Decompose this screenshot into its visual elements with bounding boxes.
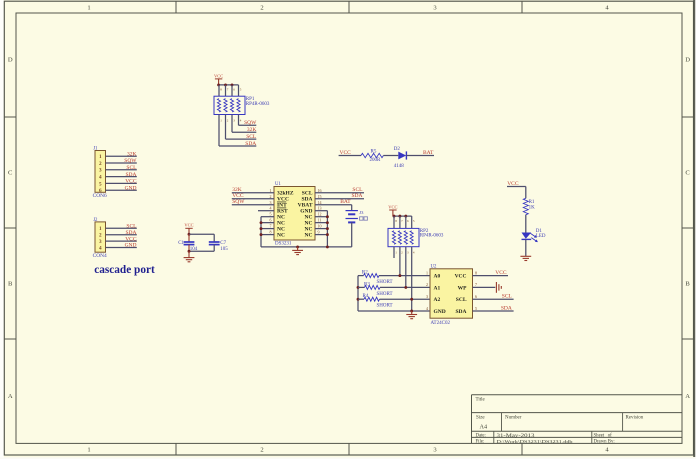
zone ticks top bbox=[175, 1, 177, 13]
wire U1 right NC vertical bbox=[326, 211, 328, 247]
svg-text:Title: Title bbox=[476, 398, 486, 403]
svg-text:SHORT: SHORT bbox=[377, 292, 393, 297]
wire RP1 to SCL bbox=[225, 115, 227, 140]
svg-text:R5: R5 bbox=[371, 150, 377, 155]
U1 pin4 stub bbox=[258, 210, 274, 212]
svg-text:VCC: VCC bbox=[455, 274, 467, 280]
junction dot A2 bbox=[410, 298, 413, 301]
wire VCC to R5 bbox=[339, 155, 361, 157]
svg-text:SDA: SDA bbox=[351, 193, 362, 199]
svg-text:1: 1 bbox=[270, 188, 272, 193]
LED D1 bbox=[522, 233, 532, 239]
wire U2 pin8 VCC bbox=[473, 275, 509, 277]
svg-text:3: 3 bbox=[99, 168, 102, 174]
svg-text:GND: GND bbox=[125, 185, 137, 191]
wire R4 to U2 pin3 bbox=[380, 298, 431, 300]
svg-text:8: 8 bbox=[270, 230, 272, 235]
svg-text:SDA: SDA bbox=[125, 172, 136, 178]
wire U1 pin13 GND bbox=[315, 210, 327, 212]
svg-text:RP4R-0603: RP4R-0603 bbox=[420, 234, 444, 239]
connector J2 body bbox=[95, 222, 106, 252]
svg-text:4: 4 bbox=[99, 175, 102, 181]
wire R1 to D1 bbox=[525, 215, 527, 233]
svg-text:Number: Number bbox=[505, 415, 522, 420]
svg-text:R4: R4 bbox=[363, 294, 369, 299]
svg-text:A4: A4 bbox=[480, 423, 488, 430]
svg-text:A2: A2 bbox=[434, 297, 441, 303]
svg-text:2: 2 bbox=[99, 233, 102, 239]
resistor pack RP2 body bbox=[393, 216, 395, 228]
svg-text:D: D bbox=[8, 57, 13, 64]
svg-text:NC: NC bbox=[305, 233, 313, 239]
wire GND row to U2 pin4 bbox=[358, 310, 430, 312]
svg-text:D2: D2 bbox=[394, 147, 401, 152]
svg-text:4: 4 bbox=[270, 206, 272, 211]
wire U1 pin15 SDA bbox=[315, 198, 364, 200]
svg-text:VCC: VCC bbox=[388, 204, 397, 209]
junction dots right NC bbox=[326, 215, 329, 218]
svg-text:2: 2 bbox=[260, 5, 263, 12]
svg-text:RP4R-0603: RP4R-0603 bbox=[246, 102, 270, 107]
svg-text:DS3231: DS3231 bbox=[275, 242, 292, 247]
svg-text:6: 6 bbox=[270, 218, 272, 223]
svg-text:SHORT: SHORT bbox=[377, 280, 393, 285]
svg-text:13: 13 bbox=[318, 206, 322, 211]
RP2 pin1 stub bbox=[393, 247, 395, 258]
wire U1 pin14 to battery bbox=[315, 204, 352, 206]
resistor R3 bbox=[365, 285, 381, 289]
svg-text:SQW: SQW bbox=[124, 158, 137, 164]
svg-text:A: A bbox=[8, 393, 13, 400]
svg-text:1: 1 bbox=[99, 226, 102, 232]
svg-text:SCL: SCL bbox=[126, 223, 137, 229]
svg-text:SQW: SQW bbox=[244, 120, 257, 126]
svg-text:6: 6 bbox=[475, 294, 477, 299]
wire RP2 pin4 to A2 and GND bbox=[411, 247, 413, 311]
wire R3 to U2 pin2 bbox=[380, 286, 430, 288]
wire row A1 left bbox=[358, 286, 365, 288]
wire RP1 to SQW bbox=[238, 115, 240, 126]
svg-text:B: B bbox=[8, 281, 13, 288]
svg-text:R3: R3 bbox=[364, 282, 370, 287]
svg-text:5: 5 bbox=[475, 306, 477, 311]
wire shorts left vertical bbox=[357, 276, 359, 311]
resistor R2 bbox=[364, 274, 380, 278]
IC U2 body bbox=[430, 269, 473, 318]
svg-text:3: 3 bbox=[270, 200, 272, 205]
label J3 battery bbox=[360, 217, 363, 220]
junction dot C1 bottom bbox=[188, 250, 191, 253]
wire RP1 top bus bbox=[219, 84, 239, 86]
svg-text:BAT: BAT bbox=[423, 150, 434, 156]
junction dot GND row bbox=[410, 310, 413, 313]
connector J1 body bbox=[95, 151, 106, 193]
wire RP2 pin2 to A0 bbox=[399, 247, 401, 276]
junction dot A0 bbox=[398, 274, 401, 277]
svg-text:VCC: VCC bbox=[184, 223, 193, 228]
svg-text:D: D bbox=[685, 57, 690, 64]
svg-text:7: 7 bbox=[270, 224, 272, 229]
diode D2 bbox=[398, 152, 406, 160]
J1 pin wires bbox=[106, 155, 137, 157]
svg-text:3: 3 bbox=[99, 239, 102, 245]
svg-text:SDA: SDA bbox=[501, 305, 512, 311]
svg-text:1: 1 bbox=[87, 5, 90, 12]
wire D2 to BAT bbox=[406, 155, 434, 157]
svg-text:WP: WP bbox=[458, 285, 468, 291]
svg-text:BAT: BAT bbox=[340, 199, 351, 205]
svg-text:5: 5 bbox=[99, 181, 102, 187]
svg-text:SCL: SCL bbox=[502, 294, 513, 300]
svg-text:SCL: SCL bbox=[246, 134, 257, 140]
zone ticks left bbox=[4, 116, 16, 118]
wire U1 left NC vertical bbox=[260, 217, 262, 247]
junction dot ground U1 bbox=[296, 245, 299, 248]
svg-text:2: 2 bbox=[99, 161, 102, 167]
svg-text:1: 1 bbox=[99, 154, 102, 160]
wire RP1 to 32K bbox=[231, 115, 233, 133]
wire D1 to ground bbox=[525, 239, 527, 256]
svg-text:32K: 32K bbox=[127, 151, 137, 157]
ground (D1) bbox=[520, 255, 531, 257]
ground (U2) bbox=[411, 311, 413, 315]
svg-text:SDA: SDA bbox=[455, 309, 466, 315]
svg-text:SQW: SQW bbox=[232, 199, 245, 205]
wire 32K to U1 pin1 bbox=[232, 192, 274, 194]
U1 NC pins right wires bbox=[315, 216, 327, 218]
svg-text:14: 14 bbox=[318, 200, 322, 205]
svg-text:CON4: CON4 bbox=[93, 253, 107, 259]
svg-text:U1: U1 bbox=[275, 182, 281, 187]
svg-text:15: 15 bbox=[318, 194, 322, 199]
wire R5 to D2 bbox=[383, 155, 398, 157]
resistor R4 bbox=[364, 297, 380, 301]
wire R2 to U2 pin1 bbox=[379, 275, 430, 277]
wire U2 pin5 SDA bbox=[473, 310, 514, 312]
wire C1-C7 bottom bbox=[213, 245, 215, 252]
wire row A2 left bbox=[358, 298, 364, 300]
svg-text:9: 9 bbox=[318, 230, 320, 235]
svg-text:J3: J3 bbox=[359, 210, 364, 215]
svg-text:VCC: VCC bbox=[214, 73, 223, 78]
svg-text:VCC: VCC bbox=[495, 270, 507, 276]
svg-text:2: 2 bbox=[426, 282, 428, 287]
ground (C1) bbox=[188, 251, 190, 257]
svg-text:SHORT: SHORT bbox=[377, 304, 393, 309]
junction dots RP1 top bbox=[217, 83, 220, 86]
junction dots shorts vertical bbox=[357, 286, 360, 289]
J2 pin wires bbox=[106, 227, 137, 229]
wire VCC to C1 bbox=[188, 234, 190, 242]
svg-text:Sheet of: Sheet of bbox=[594, 434, 613, 439]
wire row A0 left bbox=[358, 275, 364, 277]
ground (U1) bbox=[297, 247, 299, 251]
svg-text:11: 11 bbox=[318, 218, 322, 223]
svg-text:D1: D1 bbox=[536, 229, 543, 234]
svg-text:3: 3 bbox=[426, 294, 428, 299]
wire VCC to R1 bbox=[507, 186, 526, 188]
wire U2 pin6 SCL bbox=[473, 298, 514, 300]
svg-text:VCC: VCC bbox=[125, 179, 137, 185]
svg-text:A: A bbox=[685, 393, 690, 400]
svg-text:4: 4 bbox=[426, 306, 428, 311]
svg-text:R2: R2 bbox=[362, 270, 368, 275]
capacitor C7 bbox=[209, 241, 220, 243]
junction dot battery net bbox=[326, 245, 329, 248]
svg-text:105: 105 bbox=[220, 247, 228, 252]
junction dot A1 bbox=[404, 286, 407, 289]
svg-text:A0: A0 bbox=[434, 274, 441, 280]
wire U1 pin16 SCL bbox=[315, 192, 364, 194]
svg-text:1: 1 bbox=[87, 447, 90, 454]
svg-text:10: 10 bbox=[318, 224, 322, 229]
wire RP2 pin3 to A1 bbox=[405, 247, 407, 288]
svg-text:7: 7 bbox=[475, 282, 477, 287]
svg-text:SCL: SCL bbox=[126, 165, 137, 171]
zone ticks right bbox=[682, 116, 693, 118]
svg-text:1K: 1K bbox=[529, 205, 536, 210]
svg-text:C7: C7 bbox=[220, 241, 226, 246]
svg-text:GND: GND bbox=[434, 309, 446, 315]
zone ticks bottom bbox=[175, 443, 177, 455]
svg-text:U2: U2 bbox=[431, 264, 437, 269]
U1 NC pins left wires bbox=[261, 216, 274, 218]
svg-text:4148: 4148 bbox=[394, 164, 405, 169]
svg-text:32K: 32K bbox=[247, 127, 257, 133]
IC U1 body bbox=[274, 187, 315, 241]
resistor R1 bbox=[523, 198, 528, 214]
U1 INT overline bbox=[277, 201, 286, 203]
wire SQW to U1 pin3 bbox=[232, 204, 274, 206]
svg-text:Size: Size bbox=[476, 415, 485, 420]
svg-text:CON6: CON6 bbox=[93, 193, 107, 199]
svg-text:File:: File: bbox=[476, 440, 485, 445]
svg-text:C1: C1 bbox=[178, 241, 184, 246]
svg-text:12: 12 bbox=[318, 212, 322, 217]
svg-text:2: 2 bbox=[260, 447, 263, 454]
junction dot C1 top bbox=[188, 233, 191, 236]
wire C1 to ground bbox=[188, 245, 190, 252]
junction dots RP2 top bbox=[393, 215, 396, 218]
svg-text:J1: J1 bbox=[93, 147, 98, 152]
svg-text:1: 1 bbox=[426, 270, 428, 275]
svg-text:SCL: SCL bbox=[456, 297, 467, 303]
svg-text:C: C bbox=[8, 170, 13, 177]
resistor pack RP1 body bbox=[218, 85, 220, 96]
wire C1-C7 top bbox=[189, 233, 214, 235]
wire U1 bottom bbox=[261, 246, 352, 248]
wire RP1 to SDA bbox=[218, 115, 220, 147]
svg-text:SDA: SDA bbox=[125, 230, 136, 236]
wire U2 pin7 WP bbox=[473, 286, 496, 288]
svg-text:Drawn By:: Drawn By: bbox=[594, 440, 615, 445]
svg-text:C: C bbox=[685, 170, 690, 177]
wire RP2 top bus bbox=[393, 215, 412, 217]
U1 RST overline bbox=[277, 207, 286, 209]
svg-text:Date:: Date: bbox=[476, 434, 486, 439]
svg-text:4: 4 bbox=[99, 245, 102, 251]
battery J3 bbox=[346, 210, 358, 212]
svg-text:NC: NC bbox=[277, 233, 285, 239]
svg-text:cascade port: cascade port bbox=[94, 264, 155, 276]
ground sideways (WP) bbox=[495, 282, 497, 293]
svg-text:J2: J2 bbox=[93, 218, 98, 223]
svg-text:LED: LED bbox=[536, 234, 546, 239]
svg-text:Revision: Revision bbox=[626, 415, 644, 420]
svg-text:VCC: VCC bbox=[125, 236, 137, 242]
junction dots left NC bbox=[260, 221, 263, 224]
svg-text:16: 16 bbox=[318, 188, 322, 193]
svg-text:AT24C02: AT24C02 bbox=[431, 321, 451, 326]
capacitor C1 bbox=[184, 241, 195, 243]
svg-text:B: B bbox=[685, 281, 690, 288]
svg-text:2: 2 bbox=[270, 194, 272, 199]
svg-text:8: 8 bbox=[475, 270, 477, 275]
svg-text:D:\Work\DS3231\DS3231.ddb: D:\Work\DS3231\DS3231.ddb bbox=[497, 439, 574, 444]
svg-text:A1: A1 bbox=[434, 285, 441, 291]
wire battery to bottom bbox=[351, 222, 353, 247]
svg-text:5: 5 bbox=[270, 212, 272, 217]
svg-text:GND: GND bbox=[125, 243, 137, 249]
svg-text:200R: 200R bbox=[370, 158, 382, 163]
resistor R5 bbox=[361, 153, 383, 157]
svg-text:SDA: SDA bbox=[245, 141, 256, 147]
title block bbox=[472, 394, 683, 396]
wire VCC to U1 pin2 bbox=[232, 198, 274, 200]
